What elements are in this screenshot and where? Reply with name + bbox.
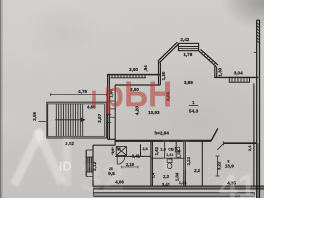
wall: bath top	[151, 157, 185, 159]
svg-text:1,42: 1,42	[154, 146, 159, 155]
svg-text:2,4: 2,4	[247, 145, 252, 151]
svg-text:ID: ID	[59, 160, 72, 174]
wall: hall left with window 3.12	[86, 145, 93, 186]
red watermark partial letter	[92, 91, 96, 109]
wall: corridor line x115	[114, 85, 116, 141]
ticks between walls	[107, 101, 115, 117]
wall: bay inner	[115, 84, 160, 86]
wall: main left vertical	[108, 75, 110, 140]
terrace line	[94, 189, 255, 196]
stair mid rail + direction arrow	[55, 118, 85, 122]
wall: right exterior	[254, 20, 260, 198]
svg-text:32: 32	[80, 156, 125, 198]
svg-text:2,67: 2,67	[97, 113, 102, 122]
svg-text:1,21: 1,21	[179, 180, 188, 185]
svg-text:54,3: 54,3	[189, 108, 199, 114]
wall: right diagonal of bay with window hatch	[199, 49, 218, 66]
door leaf	[211, 128, 218, 141]
wall: south wall right section	[224, 142, 257, 144]
window 2.42 (top bay window)	[178, 43, 198, 50]
svg-text:3,04: 3,04	[234, 71, 243, 76]
wall: inner line right side	[253, 84, 255, 187]
wall: jog step	[93, 139, 116, 145]
watermark letter И	[16, 134, 39, 181]
svg-text:3,41: 3,41	[132, 153, 141, 158]
svg-text:3,60: 3,60	[129, 67, 138, 72]
door arc into hall	[117, 157, 125, 165]
dim line 3.22	[216, 156, 220, 176]
svg-text:1,30: 1,30	[217, 67, 222, 76]
wall: top-left exterior with window 3.60	[107, 75, 160, 78]
svg-text:3,88: 3,88	[184, 80, 193, 85]
window hatch on right wall top	[257, 23, 260, 43]
svg-text:рЬН: рЬН	[104, 75, 173, 114]
wall below closet	[115, 155, 151, 157]
wall: bottom exterior	[93, 186, 264, 189]
svg-text:2,6: 2,6	[142, 146, 148, 151]
wall: vertical 1.30 left of bay	[159, 62, 161, 85]
svg-text:3,41: 3,41	[162, 182, 171, 187]
ticks right of staircase	[106, 114, 111, 116]
svg-text:4,79: 4,79	[78, 89, 87, 94]
svg-text:2,42: 2,42	[180, 37, 189, 42]
wall: big room south	[115, 140, 211, 142]
svg-text:2,18: 2,18	[126, 162, 135, 167]
svg-text:8: 8	[227, 159, 229, 163]
wall: left diagonal of bay	[158, 42, 179, 63]
underline of room number 1	[189, 105, 198, 107]
stove symbol	[175, 147, 179, 152]
small wall x140	[140, 144, 142, 156]
dim tick for 3.55	[38, 121, 46, 123]
closet with X	[116, 147, 126, 156]
svg-text:Н: Н	[160, 131, 192, 180]
toilet	[167, 159, 172, 169]
svg-text:,94: ,94	[143, 65, 148, 72]
wall: bath right	[184, 141, 186, 187]
wall: top-right exterior with window 3.04	[215, 77, 258, 82]
left edge shading	[0, 0, 3, 198]
duct strip left of closet	[111, 147, 113, 156]
svg-text:2,2: 2,2	[194, 168, 200, 173]
svg-text:1,4: 1,4	[111, 149, 115, 154]
svg-text:1,78: 1,78	[183, 52, 192, 57]
wall core fills	[93, 186, 264, 188]
svg-text:1,4: 1,4	[151, 172, 156, 178]
darker patch beyond br corner	[260, 190, 264, 198]
staircase outer walls	[47, 102, 106, 138]
wall: corridor/bath separator	[151, 141, 153, 187]
svg-text:3,55: 3,55	[32, 111, 37, 120]
wall: between small top rooms	[164, 141, 166, 158]
svg-text:41: 41	[219, 168, 257, 198]
dim line 4.79	[51, 93, 107, 96]
wall: room22 / room13.9	[201, 141, 203, 187]
dim line under 2.18	[122, 166, 139, 169]
stair treads	[56, 104, 82, 136]
wall: vertical 1.30 right of bay	[215, 65, 217, 78]
